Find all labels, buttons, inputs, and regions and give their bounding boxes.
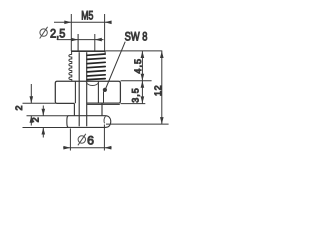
dimension 4,5 / 3,5 line — [141, 51, 143, 103]
extension line hex bottom left — [23, 102, 56, 104]
dia 2,5 left arrow — [71, 38, 78, 42]
svg-text:4,5: 4,5 — [133, 58, 143, 74]
flange inner rim right — [104, 116, 105, 123]
label dia symbol of 6 — [78, 136, 85, 143]
dia6 extension line left — [69, 129, 71, 151]
SW8 leader line below dot — [103, 92, 105, 104]
extension line flange bottom left — [23, 127, 69, 129]
flange dia6 capsule — [67, 116, 111, 128]
dimension 2 upper: lower up arrow — [30, 116, 32, 126]
thread helix bands — [87, 54, 105, 80]
dimension 2 upper: tail and down arrow — [30, 84, 32, 103]
dimension 2 lower: lower up arrow — [42, 128, 44, 138]
neck right edge — [101, 103, 103, 116]
dia 2,5 extension line right — [94, 34, 96, 51]
hex chamfer arc — [86, 82, 99, 85]
M5 extension line left — [70, 14, 72, 51]
svg-text:12: 12 — [153, 85, 163, 96]
thread right edge — [104, 51, 106, 54]
dimension 12 line — [161, 51, 163, 124]
dia 2,5 right arrow — [95, 38, 102, 42]
dimension M5 line — [54, 21, 112, 23]
hex bottom front rim — [87, 104, 120, 106]
dimension dia6 line — [63, 147, 111, 149]
neck left edge — [73, 103, 75, 115]
svg-text:2,5: 2,5 — [50, 27, 66, 41]
svg-text:2: 2 — [30, 117, 40, 122]
extension line part bottom right — [106, 123, 169, 125]
M5 extension line right — [104, 14, 106, 51]
label dia symbol of 2,5 — [40, 29, 47, 36]
thread left silhouette scallops — [69, 52, 72, 82]
dia 2,5 extension line left — [77, 34, 79, 51]
SW8 leader dot — [103, 88, 107, 92]
dia6 extension line right — [103, 125, 105, 151]
top extension line to right dims — [105, 50, 162, 52]
part top edge — [71, 50, 105, 52]
SW8 leader line — [106, 42, 126, 89]
svg-text:2: 2 — [14, 105, 24, 110]
svg-text:SW 8: SW 8 — [125, 30, 148, 43]
hex face line left — [74, 81, 76, 103]
extension line flange top left — [27, 115, 69, 117]
dimension M5 left arrow — [64, 21, 71, 25]
centre slot line left (CL1) — [78, 52, 80, 126]
hex body outline SW8 — [55, 81, 120, 103]
extension line hex top right — [121, 80, 152, 82]
dimension 2 lower: tail and down arrow — [42, 106, 44, 116]
dimension dia 2,5 line — [57, 39, 104, 41]
hex face line right — [97, 81, 99, 102]
dimension M5 right arrow — [105, 21, 112, 25]
svg-text:M5: M5 — [81, 11, 93, 23]
svg-text:6: 6 — [87, 133, 94, 147]
svg-text:3,5: 3,5 — [130, 87, 140, 103]
extension line hex bottom right — [121, 103, 146, 105]
centre slot line right (CL2) — [86, 52, 88, 126]
